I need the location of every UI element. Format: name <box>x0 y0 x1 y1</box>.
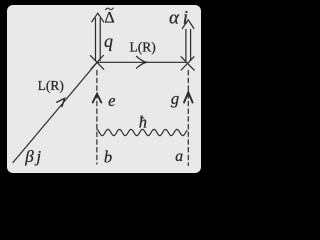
double-line arrow up from center vertex (q emission) <box>95 19 97 61</box>
light diagram panel <box>7 5 201 173</box>
double-line arrow up from right vertex (alpha-i output) <box>185 30 187 61</box>
svg-text:L(R): L(R) <box>38 78 64 93</box>
chevron head of left double arrow <box>92 13 104 22</box>
wire: horizontal line center vertex to right vertex <box>98 61 186 63</box>
arrowhead up on left dashed line <box>93 94 102 103</box>
wire: incoming diagonal line beta-j to center vertex <box>13 62 97 162</box>
svg-text:β: β <box>24 147 34 166</box>
svg-text:i: i <box>183 8 188 29</box>
vertex X center <box>90 55 103 69</box>
tilde accent over Delta <box>106 8 114 10</box>
svg-text:g: g <box>171 89 179 108</box>
svg-text:L(R): L(R) <box>129 40 155 55</box>
svg-text:b: b <box>104 148 112 167</box>
svg-text:Δ: Δ <box>104 10 114 27</box>
svg-text:α: α <box>169 8 180 29</box>
arrowhead up on right dashed line <box>184 92 193 102</box>
svg-text:e: e <box>108 91 115 110</box>
svg-text:a: a <box>175 148 183 165</box>
black outer frame <box>0 0 208 180</box>
svg-text:ħ: ħ <box>139 112 147 131</box>
arrowhead on diagonal line <box>57 98 65 106</box>
vertex X right <box>181 57 194 70</box>
chevron head of right double arrow <box>182 20 194 29</box>
svg-text:j: j <box>34 147 41 166</box>
svg-text:q: q <box>104 31 113 51</box>
dashed level line below right vertex (level g/a) <box>187 71 189 166</box>
arrowhead on horizontal line <box>137 56 147 68</box>
dashed level line below center vertex (level e/b) <box>96 71 98 165</box>
wavy photon line between b and a <box>97 129 187 135</box>
